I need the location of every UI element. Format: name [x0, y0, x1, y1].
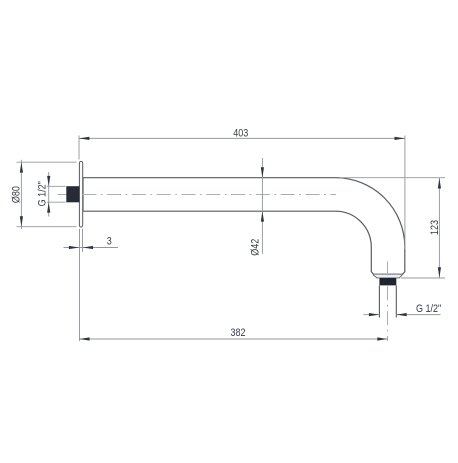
dimension G 1/2 wall: bottom arrow	[47, 202, 50, 212]
dimension Ø80: dimension line	[20, 160, 22, 229]
svg-text:382: 382	[230, 327, 245, 339]
tube end step	[373, 275, 403, 278]
centerline horizontal (tube axis)	[58, 194, 337, 196]
dimension Ø42: dimension line	[261, 158, 263, 254]
dimension 3: left arrow	[69, 246, 79, 249]
dimension Ø80: extension line bottom	[17, 226, 77, 228]
wall flange	[79, 161, 82, 227]
svg-text:403: 403	[233, 128, 248, 140]
dimension 123: bottom arrow	[438, 267, 441, 277]
svg-text:Ø80: Ø80	[11, 186, 23, 203]
dimension G 1/2 outlet: right arrow	[396, 313, 406, 316]
svg-text:Ø42: Ø42	[250, 238, 262, 255]
dimension 123: extension line bottom	[401, 277, 445, 279]
dimension Ø80: top arrow	[20, 162, 23, 172]
dimension Ø42: bottom arrow	[261, 211, 264, 221]
dimension 382: dimension line	[79, 338, 388, 340]
dimension G 1/2 wall: extension line bottom	[47, 201, 66, 203]
dimension 403: extension line right	[404, 136, 406, 250]
outlet nut	[379, 278, 396, 285]
outlet thread G1/2	[378, 285, 380, 317]
dimension 382: left arrow	[79, 337, 89, 340]
dimension 123: dimension line	[438, 178, 440, 278]
dimension 403: right arrow	[395, 137, 405, 140]
dimension 403: left arrow	[79, 137, 89, 140]
dimension G 1/2 outlet: left tail	[364, 314, 380, 316]
dimension 403: extension line left	[78, 136, 80, 160]
dimension Ø80: extension line top	[17, 161, 77, 163]
dimension G 1/2 wall: dimension line	[48, 172, 50, 217]
dimension G 1/2 outlet: right tail	[396, 314, 440, 316]
dimension Ø80: bottom arrow	[20, 216, 23, 226]
dimension 3: extension line right	[82, 229, 84, 252]
dimension G 1/2 wall: extension line top	[47, 185, 66, 187]
dimension 123: top arrow	[438, 178, 441, 188]
dimension 3: right arrow	[83, 246, 93, 249]
svg-text:123: 123	[429, 220, 441, 235]
dimension Ø42: top arrow	[261, 167, 264, 177]
dimension 382: right arrow	[377, 337, 387, 340]
dimension 123: extension line top	[340, 177, 445, 179]
svg-text:3: 3	[107, 236, 112, 248]
svg-text:G 1/2": G 1/2"	[37, 181, 49, 207]
dimension 403: dimension line	[79, 137, 405, 139]
shower arm tube outline	[83, 178, 405, 275]
dimension 3: dimension line	[64, 247, 119, 249]
dimension G 1/2 outlet: left arrow	[369, 313, 379, 316]
dimension 3: extension line left (extends to 382 dim)	[79, 229, 81, 341]
centerline vertical (outlet axis)	[387, 262, 389, 342]
wall-side thread block G1/2	[66, 186, 79, 202]
svg-text:G 1/2": G 1/2"	[416, 303, 442, 315]
dimension G 1/2 wall: top arrow	[47, 176, 50, 186]
